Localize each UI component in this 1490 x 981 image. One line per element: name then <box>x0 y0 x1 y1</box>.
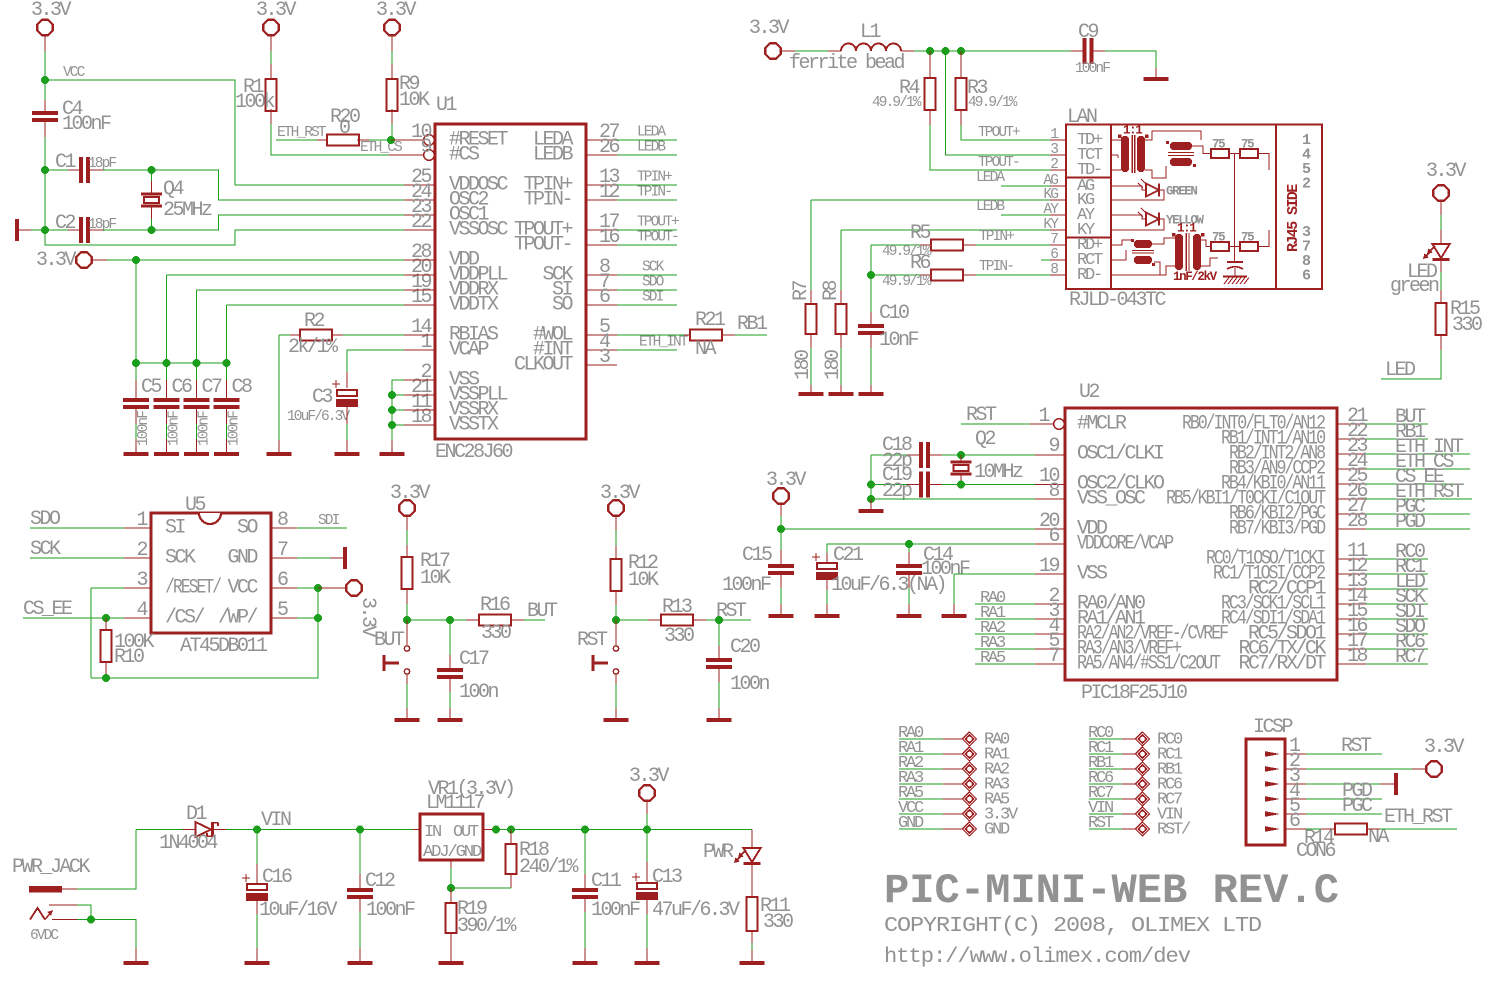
svg-text:RST: RST <box>1341 735 1372 758</box>
wire RST node <box>616 619 648 621</box>
resistor R20 0 <box>327 135 359 146</box>
diode D1 1N4004 <box>136 829 183 831</box>
junction <box>148 166 156 174</box>
wire to RST button <box>615 620 617 646</box>
svg-text:KG: KG <box>1043 187 1058 203</box>
svg-text:D1: D1 <box>186 803 208 826</box>
ICSP pin1 RST wire <box>1306 753 1382 755</box>
wire CS_EE <box>23 617 124 619</box>
svg-text:3.3V: 3.3V <box>766 469 807 492</box>
svg-text:8: 8 <box>277 509 288 532</box>
junction <box>581 826 589 834</box>
svg-text:C8: C8 <box>232 376 253 399</box>
svg-text:9: 9 <box>420 136 431 159</box>
U1 pin 1 VCAP <box>404 349 435 351</box>
VSS bus of U1 <box>392 380 404 440</box>
wire net BUT <box>1366 423 1428 425</box>
ground R2 <box>267 452 292 456</box>
svg-text:Q4: Q4 <box>163 178 184 201</box>
svg-text:3.3V: 3.3V <box>31 0 72 22</box>
svg-text:100n: 100n <box>730 673 770 696</box>
wire net RC6 <box>1366 648 1428 650</box>
VR1 ADJ wire <box>450 860 452 868</box>
resistor R15 330 <box>1436 303 1447 335</box>
svg-text:LEDA: LEDA <box>976 170 1005 186</box>
header pin RST/ <box>1089 828 1122 830</box>
ground C7 <box>184 452 209 456</box>
junction <box>715 616 723 624</box>
capacitor C9 100nF <box>1083 38 1087 64</box>
junction <box>41 226 49 234</box>
svg-text:4: 4 <box>136 599 147 622</box>
svg-text:47uF/6.3V: 47uF/6.3V <box>652 899 740 922</box>
junction <box>905 540 913 548</box>
svg-text:180: 180 <box>792 350 815 380</box>
wire net SDI <box>617 304 677 306</box>
svg-text:7: 7 <box>1050 232 1058 248</box>
svg-text:RC7: RC7 <box>1395 646 1425 669</box>
capacitor C18 22p <box>919 442 923 468</box>
wire net LED <box>1381 350 1441 379</box>
svg-text:/RESET/: /RESET/ <box>165 577 221 600</box>
junction <box>867 495 875 503</box>
resistor R13 330 <box>661 615 693 626</box>
svg-text:TPIN-: TPIN- <box>637 185 671 201</box>
svg-text:#MCLR: #MCLR <box>1077 413 1127 436</box>
power 3.3V symbol <box>1433 185 1448 200</box>
resistor R10 100K <box>101 630 112 662</box>
svg-text:3.3V: 3.3V <box>1424 736 1465 759</box>
ground C3 <box>335 452 360 456</box>
power 3.3V symbol <box>263 20 278 35</box>
header pin RA5 <box>899 798 943 800</box>
svg-text:10nF: 10nF <box>879 329 919 352</box>
svg-text:IN: IN <box>424 823 441 842</box>
U2 pin 12 RC1/T1OSI/CCP2 <box>1337 573 1366 575</box>
RJ45 top 75-ohm resistors <box>1192 146 1211 154</box>
capacitor C13 branch <box>646 830 648 863</box>
svg-text:VCC: VCC <box>63 65 86 81</box>
wire net ETH_RST <box>1380 828 1457 830</box>
U1 pin 28 VDD <box>404 259 435 261</box>
wire TCT riser <box>946 51 1051 155</box>
wire net SDI <box>1366 618 1428 620</box>
svg-text:75: 75 <box>1241 231 1254 245</box>
capacitor C16 10uF/16V (electrolytic) <box>242 877 250 879</box>
junction <box>102 674 110 682</box>
U1 pin 20 VDDPLL <box>404 274 435 276</box>
svg-text:PIC18F25J10: PIC18F25J10 <box>1081 682 1187 705</box>
RJ45 internal partitions <box>1110 125 1112 290</box>
svg-text:8: 8 <box>1050 262 1058 278</box>
svg-text:AY: AY <box>1043 202 1059 218</box>
U1 pin 17 TPOUT+ <box>586 229 617 231</box>
svg-text:100nF: 100nF <box>591 899 640 922</box>
wire VSSOSC to U1 pin22 <box>45 230 404 245</box>
svg-text:C21: C21 <box>833 544 864 567</box>
svg-text:SDI: SDI <box>642 290 664 306</box>
svg-text:Q2: Q2 <box>975 428 996 451</box>
svg-text:TPOUT-: TPOUT- <box>637 230 678 246</box>
U2 pin 26 RB5/KBI1/T0CKI/C1OUT <box>1337 498 1366 500</box>
U2 pin 18 RC7/RX/DT <box>1337 663 1366 665</box>
svg-text:5: 5 <box>277 599 288 622</box>
wire C9 to gnd <box>1105 51 1156 68</box>
wire net PGD <box>1366 528 1470 530</box>
ground C8 <box>214 452 239 456</box>
ground RST <box>604 718 629 722</box>
svg-text:C15: C15 <box>742 544 772 567</box>
junction <box>102 614 110 622</box>
wire to BUT button <box>406 620 408 646</box>
power 3.3V symbol <box>346 580 361 595</box>
svg-text:LEDB: LEDB <box>976 199 1005 215</box>
wire U5 VCC tie loop <box>91 588 318 678</box>
U1 pin 4 #INT <box>586 349 617 351</box>
svg-text:2: 2 <box>1050 157 1058 173</box>
svg-text:LEDB: LEDB <box>637 140 666 156</box>
svg-text:C9: C9 <box>1078 21 1099 44</box>
svg-text:RST/: RST/ <box>1157 821 1191 840</box>
ground C9 <box>1144 77 1169 81</box>
svg-text:3: 3 <box>1050 142 1058 158</box>
resistor R10 100K <box>105 618 107 630</box>
U1 pin 27 LEDA <box>586 139 617 141</box>
svg-text:3: 3 <box>136 569 147 592</box>
svg-text:100nF: 100nF <box>136 411 152 446</box>
ground R8 <box>829 392 854 396</box>
ICSP pin4 PGD wire <box>1306 798 1382 800</box>
U2 pin 16 RC5/SDO1 <box>1337 633 1366 635</box>
LED PWR <box>743 848 760 862</box>
svg-text:12: 12 <box>599 181 620 204</box>
svg-text:VSS: VSS <box>1077 563 1108 586</box>
svg-text:GND: GND <box>898 814 924 833</box>
U5 GND pin wire <box>297 557 330 559</box>
resistor R18 branch <box>510 830 512 845</box>
svg-text:10K: 10K <box>420 567 451 590</box>
op-amp U1 ENC28J60 IC body <box>435 124 586 439</box>
svg-text:75: 75 <box>1241 138 1254 152</box>
svg-text:22: 22 <box>411 211 432 234</box>
U2 pin 13 RC2/CCP1 <box>1337 588 1366 590</box>
svg-text:GND: GND <box>984 821 1010 840</box>
U1 pin 26 LEDB <box>586 154 617 156</box>
U2 pin 14 RC3/SCK1/SCL1 <box>1337 603 1366 605</box>
wire net RA5 <box>975 663 1035 665</box>
resistor R12 10K <box>611 559 622 591</box>
resistor R6 49.9/1% <box>871 274 920 276</box>
svg-text:C16: C16 <box>262 866 292 889</box>
svg-text:8: 8 <box>1048 480 1059 503</box>
svg-text:#CS: #CS <box>449 144 480 167</box>
svg-text:RST: RST <box>577 629 608 652</box>
wire VCAP to C3 <box>347 350 404 372</box>
svg-text:390/1%: 390/1% <box>457 915 518 938</box>
resistor R18 240/1% <box>506 844 517 874</box>
svg-text:7: 7 <box>277 539 288 562</box>
wire TPOUT+ to RJ45 TD+ <box>961 125 1050 140</box>
junction <box>957 451 965 459</box>
U2 pin 24 RB3/AN9/CCP2 <box>1337 468 1366 470</box>
svg-text:R8: R8 <box>820 280 843 301</box>
svg-text:PGD: PGD <box>1395 511 1425 534</box>
wire net TPIN+ <box>617 184 677 186</box>
svg-text:CLKOUT: CLKOUT <box>514 354 574 377</box>
svg-text:SO: SO <box>552 294 573 317</box>
svg-text:0: 0 <box>339 117 350 140</box>
svg-text:1: 1 <box>1050 127 1058 143</box>
svg-text:PGC: PGC <box>1342 795 1373 818</box>
junction <box>387 136 395 144</box>
svg-text:R13: R13 <box>662 596 692 619</box>
junction <box>942 47 950 55</box>
ground C13 <box>635 961 660 965</box>
ground C15 <box>769 614 794 618</box>
capacitor C10 branch <box>870 275 872 312</box>
resistor R19 branch <box>450 888 452 903</box>
resistor R7 180 <box>806 304 817 334</box>
svg-text:6: 6 <box>277 569 288 592</box>
svg-text:18pF: 18pF <box>88 217 116 233</box>
svg-text:R2: R2 <box>304 310 325 333</box>
capacitor C7 100nF <box>184 398 210 402</box>
junction <box>957 481 965 489</box>
wire net RST <box>706 619 751 621</box>
wire net ETH_CS <box>1366 468 1470 470</box>
capacitor C21 branch <box>826 553 828 562</box>
junction <box>223 359 231 367</box>
capacitor C14 100nF <box>896 564 922 568</box>
junction <box>388 421 396 429</box>
svg-text:SDO: SDO <box>642 275 664 291</box>
wire net BUT <box>524 619 545 621</box>
junction <box>87 916 95 924</box>
U1 pin 18 VSSTX <box>404 424 435 426</box>
svg-text:R6: R6 <box>910 252 931 275</box>
svg-text:10K: 10K <box>628 569 659 592</box>
wire VDDCORE to U2 pin6 <box>827 544 1035 553</box>
ground C16 <box>245 961 270 965</box>
wire VDDTX to U1 pin15 <box>227 304 405 306</box>
wire net RA2 <box>975 633 1035 635</box>
ground C18/C19 <box>859 509 884 513</box>
capacitor C21 10uF/6.3(NA) (electrolytic) <box>812 556 820 558</box>
svg-text:RST: RST <box>716 600 747 623</box>
U1 pin 19 VDDRX <box>404 289 435 291</box>
svg-text:COPYRIGHT(C) 2008, OLIMEX LTD: COPYRIGHT(C) 2008, OLIMEX LTD <box>884 914 1261 938</box>
power 3.3V symbol <box>1426 761 1441 776</box>
U5 pin 8 SO <box>271 527 297 529</box>
U5 pin 2 SCK <box>124 557 151 559</box>
svg-text:OUT: OUT <box>453 823 479 842</box>
wire net RA3 <box>975 648 1035 650</box>
svg-text:SI: SI <box>165 517 186 540</box>
wire jack gnd <box>91 920 136 949</box>
header pin RA2 <box>899 768 943 770</box>
power 3.3V symbol <box>765 43 780 58</box>
header pin RC1 <box>1089 753 1122 755</box>
svg-text:49.9/1%: 49.9/1% <box>882 274 932 290</box>
svg-text:RA5: RA5 <box>980 649 1006 668</box>
ground C14 <box>897 614 922 618</box>
inverted pin U2 #MCLR <box>1054 419 1065 430</box>
svg-text:18: 18 <box>411 406 432 429</box>
U1 pin 5 #WOL <box>586 334 617 336</box>
wire VDDRX to U1 pin19 <box>197 289 405 291</box>
svg-text:C7: C7 <box>202 376 223 399</box>
net LEDB wire at RJ45 <box>1001 214 1050 216</box>
svg-text:/WP/: /WP/ <box>218 607 258 630</box>
regulator VR1 LM1117 <box>413 829 420 831</box>
U5 pin 6 VCC <box>271 587 297 589</box>
header pin VIN <box>1089 813 1122 815</box>
wire U5 reset tie <box>91 587 124 589</box>
svg-text:KY: KY <box>1043 217 1059 233</box>
svg-text:100nF: 100nF <box>921 558 970 581</box>
capacitor C15 100nF <box>768 564 794 568</box>
svg-text:VSS_OSC: VSS_OSC <box>1077 488 1146 511</box>
U1 pin 13 TPIN+ <box>586 184 617 186</box>
junction <box>957 47 965 55</box>
svg-text:TPIN-: TPIN- <box>523 189 571 212</box>
wire SDI <box>297 527 347 529</box>
VR1 OUT wire <box>483 829 492 831</box>
RJ45 transformer T2 1:1 <box>1175 234 1183 270</box>
svg-text:330: 330 <box>1452 314 1482 337</box>
svg-text:TPIN+: TPIN+ <box>979 229 1014 245</box>
U2 pin 15 RC4/SDI1/SDA1 <box>1337 618 1366 620</box>
svg-text:6: 6 <box>1289 810 1300 833</box>
svg-text:100nF: 100nF <box>366 899 415 922</box>
svg-text:C11: C11 <box>591 870 622 893</box>
svg-text:6: 6 <box>1050 247 1058 263</box>
wire OSC2 to U2 pin10 <box>961 484 1035 486</box>
svg-text:VCC: VCC <box>227 577 258 600</box>
svg-text:http://www.olimex.com/dev: http://www.olimex.com/dev <box>884 945 1191 969</box>
capacitor C20 branch <box>718 620 720 646</box>
header pin RA3 <box>899 783 943 785</box>
svg-text:10uF/6.3V: 10uF/6.3V <box>287 409 350 425</box>
wire TPIN- to RJ45 RD- <box>976 274 1050 276</box>
svg-text:VDDCORE/VCAP: VDDCORE/VCAP <box>1077 533 1173 556</box>
svg-text:9: 9 <box>1048 435 1059 458</box>
svg-text:SCK: SCK <box>165 547 196 570</box>
capacitor C19 22p <box>919 472 923 498</box>
ground U2 VSS <box>942 614 967 618</box>
svg-text:1nF/2kV: 1nF/2kV <box>1173 270 1218 284</box>
svg-text:RJ45 SIDE: RJ45 SIDE <box>1285 184 1302 252</box>
svg-text:AT45DB011: AT45DB011 <box>180 635 268 658</box>
svg-text:330: 330 <box>664 625 694 648</box>
junction <box>388 391 396 399</box>
resistor R3 49.9/1% <box>956 78 967 110</box>
U1 pin 25 VDDOSC <box>404 184 435 186</box>
wire OSC1 node to U1 pin23 <box>152 215 405 230</box>
RJ45 capacitor 1nF/2kV <box>1227 261 1243 263</box>
U1 pin 23 OSC1 <box>404 214 435 216</box>
ICSP pin5 PGC wire <box>1306 813 1382 815</box>
RJ45 bottom 75-ohm resistors <box>1201 240 1211 247</box>
ground C11 <box>573 961 598 965</box>
inverted pin U1 #CS <box>424 150 435 161</box>
svg-text:VDDTX: VDDTX <box>449 294 499 317</box>
wire net SCK <box>617 274 677 276</box>
svg-text:TPOUT+: TPOUT+ <box>637 215 679 231</box>
svg-text:U1: U1 <box>436 94 458 117</box>
svg-text:R16: R16 <box>480 594 510 617</box>
svg-text:49.9/1%: 49.9/1% <box>968 95 1018 111</box>
LED PWR <box>751 830 753 849</box>
svg-text:TPOUT+: TPOUT+ <box>978 125 1020 141</box>
svg-text:C17: C17 <box>459 648 489 671</box>
power 3.3V symbol <box>384 20 399 35</box>
ICSP pin 1 <box>1265 751 1280 757</box>
RJ45 RCT stub <box>1041 259 1050 261</box>
svg-text:49.9/1%: 49.9/1% <box>872 95 922 111</box>
wire 3.3V rail <box>492 829 752 831</box>
wire junction row C5-C8 <box>136 362 227 364</box>
svg-text:GND: GND <box>227 547 257 570</box>
wire net ETH_INT <box>617 349 677 351</box>
capacitor C15 branch <box>780 529 782 550</box>
svg-text:22p: 22p <box>882 480 912 503</box>
U2 pin 28 RB7/KBI3/PGD <box>1337 528 1366 530</box>
junction <box>132 256 140 264</box>
RJ45 center vertical to cap <box>1234 154 1236 263</box>
resistor R19 390/1% <box>446 903 457 933</box>
resistor R17 10K <box>402 557 413 589</box>
ground C10 <box>859 392 884 396</box>
wire 3.3V rail down to C5 <box>135 260 137 363</box>
connector ICSP CON6 body <box>1246 739 1285 845</box>
wire VCC to U1 pin25 <box>45 80 404 185</box>
resistor R16 330 <box>479 615 511 626</box>
resistor R8 180 <box>836 304 847 334</box>
crystal Q2 10MHz <box>960 455 962 462</box>
svg-text:TPOUT-: TPOUT- <box>978 155 1019 171</box>
svg-text:100nF: 100nF <box>1075 61 1110 77</box>
svg-text:L1: L1 <box>860 21 882 44</box>
power 3.3V symbol <box>37 20 52 35</box>
U1 pin 3 CLKOUT <box>586 364 617 366</box>
junction VCC <box>41 76 49 84</box>
ICSP pin 2 <box>1265 766 1280 772</box>
RJ45 earth ground <box>1234 268 1236 276</box>
capacitor C1 18pF <box>79 157 83 183</box>
junction <box>777 525 785 533</box>
junction <box>867 481 875 489</box>
capacitor C17 branch <box>449 620 451 655</box>
capacitor C16 branch <box>256 830 258 865</box>
header pin RB1 <box>1089 768 1122 770</box>
wire net TPOUT- <box>617 244 677 246</box>
U2 pin 23 RB2/INT2/AN8 <box>1337 453 1366 455</box>
svg-text:100nF: 100nF <box>722 574 771 597</box>
svg-text:26: 26 <box>599 136 620 159</box>
wire net RB1 <box>1366 438 1428 440</box>
ground C5 <box>124 452 149 456</box>
svg-text:100nF: 100nF <box>167 411 183 446</box>
svg-text:RST: RST <box>1088 814 1114 833</box>
svg-text:100n: 100n <box>459 681 499 704</box>
junction <box>492 826 500 834</box>
junction <box>314 614 322 622</box>
svg-text:ferrite bead: ferrite bead <box>789 52 905 75</box>
svg-text:ADJ/GND: ADJ/GND <box>423 843 482 862</box>
wire SCK <box>30 557 124 559</box>
capacitor C17 100n <box>437 668 463 672</box>
